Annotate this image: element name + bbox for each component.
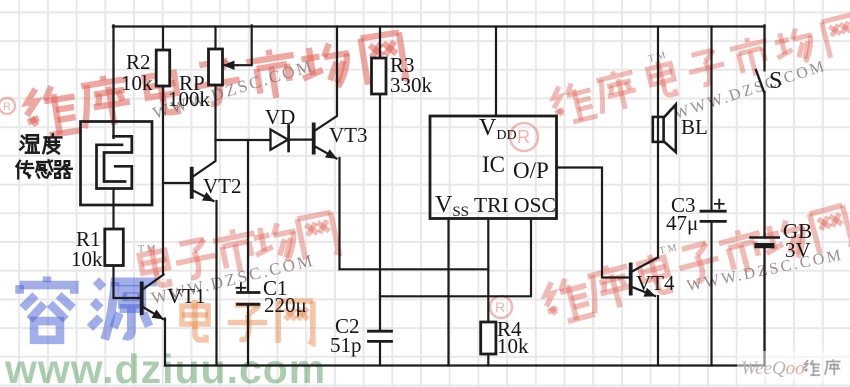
svg-text:VT1: VT1 [167, 284, 206, 308]
capacitor C1 top wire [247, 140, 249, 292]
VT3 collector [315, 27, 337, 131]
svg-text:47μ: 47μ [666, 211, 698, 235]
VT4 collector [632, 258, 658, 272]
svg-text:BL: BL [681, 115, 708, 139]
wire VT4 emitter to ground [657, 296, 659, 366]
IC box [430, 116, 557, 219]
svg-text:220μ: 220μ [264, 293, 307, 317]
wire R2 top [162, 27, 164, 51]
speaker BL horn [664, 105, 676, 153]
svg-text:10k: 10k [121, 71, 153, 95]
svg-text:100k: 100k [168, 87, 211, 111]
svg-text:3V: 3V [785, 238, 811, 262]
wire RP bottom to VD node [214, 85, 216, 141]
wire switch to battery [763, 92, 765, 238]
resistor R4 [481, 322, 496, 354]
svg-text:10k: 10k [497, 334, 529, 358]
transistor VT3 base bar [312, 123, 316, 155]
svg-text:R: R [495, 299, 505, 315]
svg-text:R: R [3, 101, 11, 113]
wire VT3 emitter to TRI pin [340, 268, 489, 270]
VT2 emitter with arrow [193, 191, 214, 202]
speaker BL driver box [653, 117, 664, 142]
wire VT2 emitter to ground [215, 201, 217, 366]
wiper arrowhead [224, 64, 237, 66]
wire R3 bottom to C2 [379, 94, 381, 331]
VT3 emitter with arrow [315, 147, 337, 159]
transistor VT1 base bar [140, 282, 144, 316]
svg-text:10k: 10k [71, 247, 103, 271]
humidity sensor box [81, 122, 153, 206]
wire BL branch: rail through speaker to VT4 collector [657, 27, 659, 258]
wire Vss pin to ground [447, 219, 449, 366]
wire C2 to ground [379, 341, 381, 365]
wiper arrow wire of RP [237, 25, 252, 65]
capacitor C3 plus sign [715, 200, 724, 209]
battery GB long plate [751, 236, 779, 239]
svg-text:VT3: VT3 [329, 123, 368, 147]
capacitor C3 top plate [701, 210, 725, 213]
label sensor 传感器 [16, 160, 71, 178]
wire VD cathode to VT3 base [289, 139, 312, 141]
capacitor C1 bottom plate [238, 303, 260, 306]
wire bottom ground rail [165, 364, 765, 366]
VT2 collector [193, 140, 216, 177]
wire OSC pin down-left to R3/C2 [380, 219, 531, 297]
capacitor C3 bottom plate [701, 220, 725, 223]
wire C3 top [710, 27, 712, 212]
wire sensor bottom to R1 [112, 189, 114, 230]
wire Vdd pin to rail [495, 27, 497, 117]
diode VD triangle [271, 130, 289, 150]
svg-text:IC: IC [482, 152, 505, 177]
svg-text:S: S [769, 68, 782, 94]
sensor electrode lower (to R1) [97, 145, 132, 189]
wire R2 bottom to VT2 base node and VT1 collector [162, 86, 164, 274]
wire R4 to ground [487, 354, 489, 366]
wire left border from rail to sensor [112, 25, 114, 138]
wire VT1 emitter to ground [164, 319, 166, 366]
wire O/P to VT4 base [557, 168, 629, 278]
switch S blade [756, 70, 764, 92]
wire R1 bottom to VT1 base [114, 266, 140, 299]
wire TRI pin down to R4 [487, 219, 489, 323]
VT1 collector [142, 275, 164, 291]
wire right border to switch [763, 25, 765, 70]
wire R3 top [379, 27, 381, 59]
resistor R2 [156, 50, 170, 86]
wire C3 to ground [710, 221, 712, 365]
svg-text:VT4: VT4 [636, 271, 675, 295]
wire VT3 emitter down [338, 158, 340, 269]
label sensor 湿度 [20, 134, 61, 153]
wire C1 to ground [247, 304, 249, 365]
resistor R3 [372, 58, 387, 94]
svg-text:VD: VD [265, 105, 295, 129]
diode VD cathode bar [287, 126, 290, 152]
resistor R1 [105, 229, 124, 266]
svg-text:WeeQoo: WeeQoo [741, 358, 805, 379]
VT4 emitter with arrow [632, 287, 655, 296]
capacitor C2 top plate [369, 330, 392, 333]
svg-text:O/P: O/P [513, 158, 549, 183]
svg-text:VT2: VT2 [203, 174, 242, 198]
transistor VT2 base bar [190, 167, 194, 199]
sensor electrode upper (from left border) [104, 136, 132, 181]
capacitor C1 top plate [238, 291, 260, 294]
capacitor C1 plus sign [237, 283, 246, 292]
svg-text:51p: 51p [330, 333, 362, 357]
VT1 emitter with arrow [142, 307, 163, 320]
svg-text:R: R [517, 127, 530, 147]
wire RP top [214, 27, 216, 50]
wire top supply rail [113, 25, 765, 27]
transistor VT4 base bar [629, 263, 633, 296]
potentiometer RP [209, 49, 223, 85]
capacitor C2 bottom plate [369, 340, 392, 343]
wire battery to ground [763, 247, 765, 366]
wire VT2 collector node to VD anode [216, 139, 271, 141]
battery GB short plate [757, 243, 772, 248]
wire VT2 base [163, 182, 190, 184]
svg-text:330k: 330k [390, 73, 433, 97]
